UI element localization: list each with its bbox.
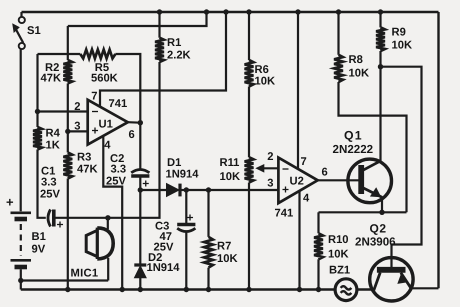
svg-text:6: 6: [322, 167, 328, 179]
svg-text:−: −: [92, 105, 99, 119]
wire battery to ground rail: [20, 281, 22, 290]
wire C2 top stub: [139, 123, 141, 170]
wire top positive rail: [22, 11, 439, 13]
wire R1 bottom to mic node: [108, 62, 160, 218]
wire left rail from S1 to battery: [20, 49, 22, 211]
resistor R6: [245, 60, 254, 87]
svg-text:U1: U1: [99, 119, 113, 131]
wire C1 to mic node: [55, 217, 108, 219]
svg-text:10K: 10K: [349, 68, 370, 80]
svg-text:S1: S1: [27, 25, 41, 37]
svg-text:25V: 25V: [154, 242, 174, 254]
svg-text:+: +: [282, 183, 289, 197]
junction C3 ground: [184, 287, 189, 292]
wire R4 top stub: [36, 112, 38, 128]
switch S1 stub from rail: [20, 12, 22, 17]
junction U1 pin3 node: [65, 129, 70, 134]
svg-text:2.2K: 2.2K: [167, 50, 191, 62]
svg-text:1K: 1K: [46, 140, 60, 152]
junction R9 bottom node: [378, 64, 383, 69]
wire pin2 line: [38, 110, 88, 112]
svg-text:741: 741: [109, 98, 128, 110]
wire mic top lead: [107, 218, 109, 229]
junction D2 ground: [138, 287, 143, 292]
svg-text:741: 741: [275, 208, 294, 220]
svg-text:R1: R1: [167, 37, 181, 49]
svg-text:3: 3: [267, 178, 273, 190]
switch S1 top terminal: [19, 17, 25, 23]
svg-text:2N3906: 2N3906: [355, 236, 396, 249]
svg-text:R8: R8: [349, 54, 363, 66]
svg-text:10K: 10K: [217, 253, 238, 265]
resistor R1: [155, 38, 164, 62]
wire feedback right segment to pin6: [115, 54, 140, 123]
op-amp U2: [278, 158, 317, 204]
junction R11 ground: [246, 287, 251, 292]
diode D1: [167, 184, 181, 197]
junction U1 pin2 node: [35, 109, 40, 114]
svg-text:2N2222: 2N2222: [333, 143, 374, 156]
wire bottom ground rail buzzer to Q2: [357, 288, 374, 290]
switch S1 bottom terminal: [19, 43, 25, 49]
battery B1: [11, 213, 32, 281]
junction U2 pin4 ground: [297, 287, 302, 292]
svg-text:R6: R6: [255, 64, 269, 76]
capacitor C2: [131, 170, 149, 191]
wire R9 node to Q2 base jog: [381, 67, 422, 267]
wire right rail: [437, 12, 439, 288]
transistor Q1: [348, 159, 392, 203]
junction rail U2 pin7: [295, 9, 300, 14]
svg-text:+: +: [92, 124, 99, 138]
svg-text:10K: 10K: [392, 40, 413, 52]
op-amp U1: [88, 100, 128, 145]
svg-text:1N914: 1N914: [147, 262, 181, 274]
svg-text:+: +: [187, 211, 194, 225]
buzzer BZ1: [335, 279, 357, 301]
wire detector node to D1: [140, 189, 166, 191]
svg-text:10K: 10K: [220, 171, 241, 183]
svg-text:3.3: 3.3: [111, 164, 127, 176]
wire battery negative to microphone: [21, 279, 108, 281]
wire R10 top stub: [317, 212, 319, 233]
resistor R7: [204, 237, 213, 268]
wire R6 to R11: [248, 87, 250, 158]
junction rail R2 line: [204, 9, 209, 14]
svg-text:B1: B1: [32, 231, 46, 243]
svg-text:R3: R3: [77, 152, 91, 164]
wire R2 bottom to pin3 node: [67, 83, 69, 131]
wire R3 top stub: [67, 131, 69, 152]
svg-text:47K: 47K: [77, 164, 98, 176]
svg-text:D1: D1: [167, 157, 181, 169]
junction R7 ground: [206, 287, 211, 292]
wire R9 bottom stub: [379, 51, 381, 67]
wire R1 top stub: [158, 12, 160, 38]
resistor R9: [376, 27, 385, 51]
wire U1 pin6 to C2 node: [128, 121, 141, 124]
svg-text:2: 2: [74, 101, 80, 113]
junction rail R9: [378, 9, 383, 14]
switch S1 lever arrow: [12, 23, 23, 43]
svg-text:+: +: [57, 218, 64, 232]
junction mic node: [105, 215, 110, 220]
svg-text:4: 4: [303, 193, 310, 205]
svg-text:Q2: Q2: [370, 222, 387, 236]
junction rail pin7 line: [223, 9, 228, 14]
wire D2 to ground: [139, 278, 141, 290]
wire R3 bottom to ground rail: [67, 179, 69, 290]
junction pin4 ground: [120, 287, 125, 292]
junction rail R6: [246, 9, 251, 14]
svg-text:25V: 25V: [40, 189, 60, 201]
svg-text:+: +: [6, 195, 14, 210]
junction rail R1: [157, 9, 162, 14]
wire U2 pin4 to ground: [298, 191, 300, 290]
wire U1 pin4 to ground: [103, 136, 122, 289]
wire pin3 line: [68, 130, 88, 132]
svg-text:4: 4: [104, 140, 111, 152]
resistor R8: [334, 55, 343, 82]
resistor R4: [33, 127, 42, 150]
resistor R10: [314, 233, 323, 259]
junction detector node: [138, 187, 143, 192]
wire Q1 emitter down: [381, 197, 383, 213]
diode D2: [134, 265, 146, 278]
wire R2 top to rail: [68, 12, 207, 26]
wire D1 to C3 node: [180, 189, 186, 191]
svg-text:+: +: [142, 177, 149, 191]
svg-text:7: 7: [301, 156, 307, 168]
svg-text:Q1: Q1: [344, 129, 363, 143]
wire U2 output to Q1 base: [318, 179, 359, 181]
svg-text:6: 6: [129, 129, 135, 141]
wire R4 bottom to C1: [38, 150, 46, 218]
capacitor C3: [177, 211, 195, 232]
junction R10 ground: [316, 287, 321, 292]
wire R7 top stub: [207, 190, 209, 237]
wire emitter node line: [319, 211, 407, 213]
svg-text:MIC1: MIC1: [71, 268, 99, 280]
wire C2 bottom stub: [139, 176, 141, 190]
wire U2 pin7 to rail: [297, 12, 299, 169]
wire R2 column top: [67, 26, 69, 60]
svg-text:R9: R9: [392, 27, 406, 39]
svg-text:U2: U2: [290, 176, 304, 188]
wire C3 top stub: [185, 190, 187, 223]
junction U1 pin6 node: [138, 120, 143, 125]
wire R11 bottom to ground: [248, 183, 250, 290]
wire C3 to ground: [185, 232, 187, 290]
wire R10 to ground: [317, 259, 319, 289]
wire R9 node to Q1 collector: [379, 67, 381, 162]
junction C3 node: [184, 187, 189, 192]
svg-text:2: 2: [267, 151, 273, 163]
junction Q1 emitter node: [379, 210, 384, 215]
svg-text:560K: 560K: [91, 73, 118, 85]
svg-text:1N914: 1N914: [166, 169, 200, 181]
wire feedback left down to pin2 node: [36, 54, 38, 112]
resistor R3: [63, 153, 72, 179]
junction R7 detector tee: [206, 187, 211, 192]
svg-text:47K: 47K: [41, 73, 62, 85]
wire feedback left segment: [38, 53, 81, 55]
wire Q2 emitter to right rail: [411, 287, 439, 289]
wire U1 pin7 to rail: [100, 12, 226, 107]
potentiometer R11 wiper arrow: [255, 164, 278, 173]
capacitor C1: [48, 210, 64, 232]
resistor R5: [80, 50, 115, 59]
svg-text:3: 3: [74, 121, 80, 133]
transistor Q2: [370, 258, 413, 301]
wire R7 to ground: [207, 268, 209, 290]
svg-text:3.3: 3.3: [41, 177, 57, 189]
microphone MIC1: [86, 228, 113, 259]
wire R6 top stub: [248, 12, 250, 60]
svg-text:BZ1: BZ1: [329, 265, 350, 277]
svg-text:R4: R4: [46, 128, 61, 140]
svg-text:R7: R7: [217, 241, 231, 253]
wire bottom ground rail left of buzzer: [21, 288, 336, 290]
svg-text:7: 7: [91, 91, 97, 103]
resistor R2: [63, 60, 72, 83]
svg-text:10K: 10K: [328, 249, 349, 261]
svg-text:25V: 25V: [106, 176, 126, 188]
svg-text:9V: 9V: [32, 244, 46, 256]
wire R8 bottom jog: [339, 82, 407, 212]
junction rail R8: [336, 9, 341, 14]
wire detector line to U2 pin3: [186, 189, 278, 191]
junction R3 ground: [65, 287, 70, 292]
wire D2 column: [139, 190, 141, 266]
junction battery negative node: [18, 278, 23, 283]
svg-text:R10: R10: [328, 234, 349, 246]
wire mic bottom lead: [107, 258, 109, 281]
wire R8 top stub: [337, 12, 339, 55]
wire R9 top stub: [379, 12, 381, 27]
potentiometer R11: [245, 157, 254, 182]
svg-text:−: −: [282, 162, 289, 176]
svg-text:10K: 10K: [255, 76, 276, 88]
svg-text:R11: R11: [220, 157, 240, 169]
